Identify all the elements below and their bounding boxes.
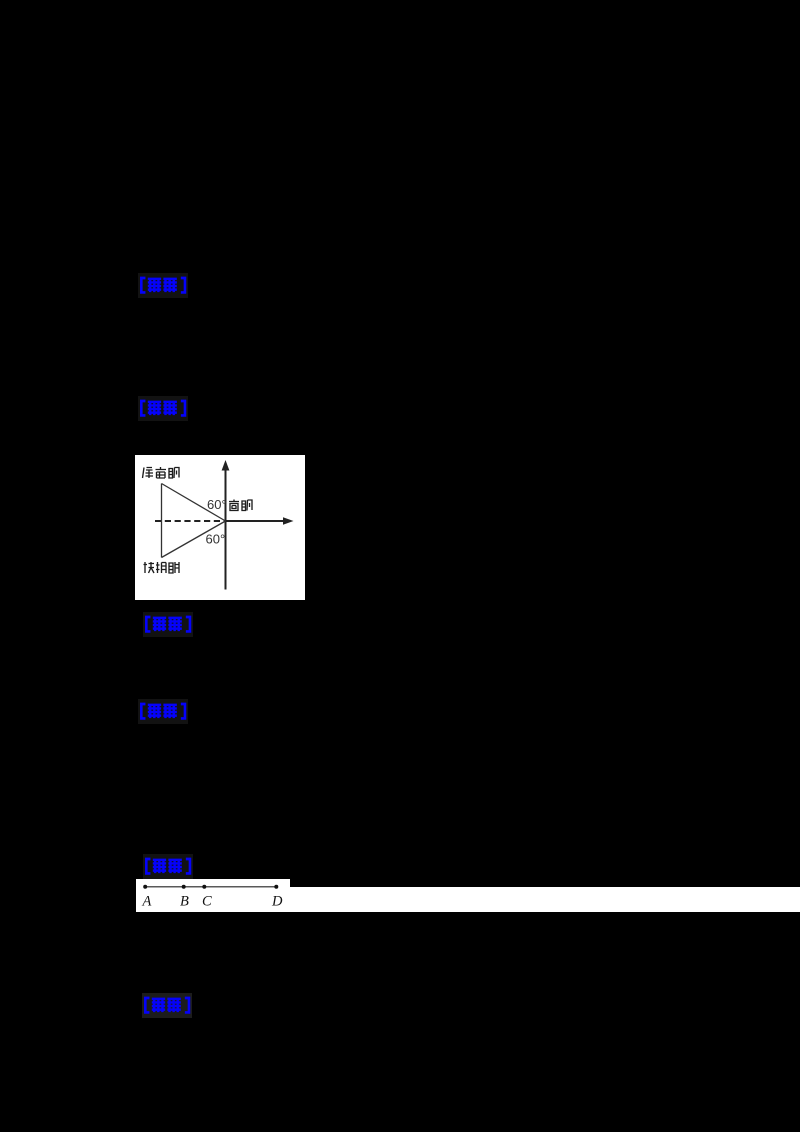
answer label 3 (139, 612, 195, 638)
dashed sight line (155, 520, 226, 522)
answer label 2 (134, 396, 190, 422)
diagram: ships figure (white panel) (135, 455, 305, 600)
svg-text:C: C (202, 893, 212, 909)
label: escort ship (bottom-left CJK) (144, 562, 180, 573)
point B (182, 884, 186, 888)
svg-text:A: A (142, 893, 152, 909)
horizontal axis with right arrow (226, 517, 294, 525)
label: merchant ship (right CJK) (229, 500, 252, 511)
point A (143, 884, 147, 888)
white text-highlight strip to right edge (290, 887, 800, 912)
answer label 1 (134, 273, 190, 299)
upper bearing line (162, 484, 226, 522)
svg-text:D: D (271, 893, 283, 909)
answer label 6 (138, 993, 194, 1019)
svg-text:B: B (180, 893, 189, 909)
answer label 5 (139, 854, 195, 880)
point C (202, 884, 206, 888)
svg-text:60°: 60° (206, 532, 226, 547)
label: pirate ship (top-left CJK) (143, 467, 180, 478)
vertical axis with up arrow (222, 460, 230, 590)
svg-text:60°: 60° (207, 497, 227, 512)
number line figure (white panel) (136, 879, 290, 912)
segment line A-D (145, 885, 276, 887)
triangle left edge (161, 484, 163, 558)
answer label 4 (134, 699, 190, 725)
point D (274, 884, 278, 888)
lower bearing line (162, 521, 226, 558)
